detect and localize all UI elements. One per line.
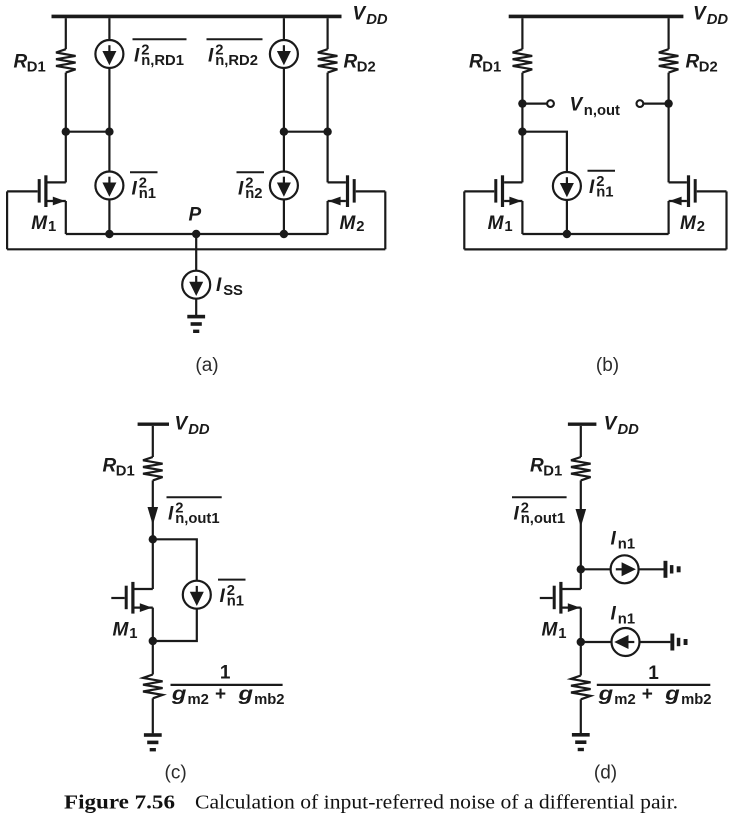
current arrow In,out1 (c) (148, 507, 159, 525)
wire VDD to RD1 (d) (580, 426, 582, 457)
wire RD1 to drain node (a) (65, 73, 67, 132)
wire resistor to ground (d) (580, 699, 582, 733)
svg-text:Figure 7.56: Figure 7.56 (64, 792, 175, 814)
wire ISS to ground (a) (195, 299, 197, 315)
ground (d) (572, 733, 590, 737)
svg-text:I: I (132, 179, 138, 200)
svg-text:m2: m2 (188, 692, 209, 708)
wire VDD to RD1 (b) (521, 18, 523, 49)
svg-text:g: g (237, 684, 253, 705)
svg-text:(c): (c) (165, 762, 187, 783)
svg-text:1: 1 (558, 626, 566, 642)
wire gate feedback rail (b) (464, 248, 726, 250)
label In,out1 squared (c) (167, 496, 222, 498)
wire M1 source down (d) (580, 608, 582, 642)
svg-text:DD: DD (707, 12, 729, 28)
svg-text:(a): (a) (195, 355, 218, 376)
transistor M2 (a) (328, 181, 346, 183)
wire In1 to tail rail (b) (566, 200, 568, 234)
wire RD1 to drain node (c) (152, 480, 154, 539)
current arrow In,out1 (d) (576, 509, 587, 527)
wire In1 bottom to ac ground (d) (640, 641, 671, 643)
svg-text:I: I (134, 46, 140, 67)
node dot In1 tap (b) (518, 128, 526, 136)
svg-text:n,out: n,out (584, 103, 620, 119)
wire source to resistor (c) (152, 641, 154, 675)
wire VDD to In,RD1 source (a) (108, 18, 110, 40)
svg-text:I: I (514, 504, 520, 525)
svg-text:Calculation of input-referred: Calculation of input-referred noise of a… (195, 792, 678, 814)
svg-text:P: P (189, 205, 202, 226)
svg-text:D2: D2 (699, 60, 718, 76)
svg-text:DD: DD (618, 422, 640, 438)
svg-text:n,out1: n,out1 (175, 511, 219, 527)
VDD rail (a) (52, 15, 342, 19)
current source ISS (a) (182, 271, 210, 299)
fraction bar (d) (597, 684, 711, 686)
svg-text:(d): (d) (594, 762, 617, 783)
node dot output left (b) (518, 99, 526, 107)
resistor RD1 (c) (143, 457, 163, 480)
wire gate feedback rail (a) (7, 248, 385, 250)
transistor M1 (a) (48, 181, 66, 183)
svg-text:M: M (340, 213, 357, 234)
wire In1 bottom to source node (c) (153, 609, 197, 641)
svg-text:I: I (208, 46, 214, 67)
wire RD1 to M1 drain (b) (521, 73, 523, 183)
wire In1 to tail rail (a) (108, 200, 110, 235)
svg-text:D1: D1 (543, 463, 562, 479)
current source In1 (c) (183, 581, 211, 609)
svg-text:M: M (31, 213, 48, 234)
svg-text:I: I (220, 586, 226, 607)
resistor 1/(gm2+gmb2) (c) (143, 675, 163, 699)
label In,RD1 squared (a) (133, 38, 187, 40)
svg-text:DD: DD (188, 422, 210, 438)
wire node to M1 drain (a) (65, 132, 67, 183)
ground (c) (144, 733, 162, 737)
svg-text:DD: DD (366, 12, 388, 28)
wire RD1 to drain node (d) (580, 480, 582, 569)
svg-text:M: M (488, 213, 505, 234)
node dot In1 bottom (b) (563, 230, 571, 238)
wire resistor to ground (c) (152, 698, 154, 733)
svg-text:g: g (664, 684, 680, 705)
wire drain junction left (a) (66, 131, 110, 133)
wire VDD to RD2 (b) (667, 18, 669, 49)
wire M1 source down (c) (152, 608, 154, 641)
wire M2 source down (b) (667, 201, 669, 234)
svg-text:1: 1 (220, 662, 231, 683)
resistor RD2 (a) (318, 49, 338, 72)
svg-text:I: I (611, 528, 617, 549)
terminal output left (b) (547, 100, 554, 107)
wire node to In2 source (a) (283, 132, 285, 172)
wire tail rail (b) (522, 233, 668, 235)
resistor RD1 (b) (513, 49, 533, 72)
current source In,RD2 (a) (270, 40, 298, 68)
svg-text:R: R (344, 52, 358, 73)
svg-text:n1: n1 (618, 536, 635, 552)
svg-text:1: 1 (648, 663, 659, 684)
svg-text:I: I (168, 504, 174, 525)
wire drain to In1 top (c) (153, 539, 197, 580)
transistor M1 (d) (563, 588, 581, 590)
svg-text:g: g (597, 684, 613, 705)
current source In2 (a) (270, 172, 298, 200)
label In1 squared (b) (588, 170, 616, 172)
svg-text:g: g (171, 684, 187, 705)
svg-text:n1: n1 (596, 185, 613, 201)
wire P to ISS (a) (195, 234, 197, 271)
wire source to In1 bottom (d) (581, 641, 612, 643)
transistor M2 (b) (669, 181, 687, 183)
svg-text:n2: n2 (245, 186, 262, 202)
wire from right output terminal (b) (643, 102, 668, 104)
wire M1 gate feedback down (a) (6, 191, 8, 249)
svg-text:+: + (642, 684, 653, 705)
svg-text:R: R (14, 52, 28, 73)
node dot In2 top (a) (280, 128, 288, 136)
node dot In1 bottom (a) (105, 230, 113, 238)
node dot drain M2 (a) (323, 128, 331, 136)
wire source to resistor (d) (580, 642, 582, 676)
wire VDD to RD2 (a) (327, 18, 329, 49)
node dot In2 bottom (a) (280, 230, 288, 238)
wire to left output terminal (b) (522, 102, 547, 104)
node dot drain M1 (a) (62, 128, 70, 136)
svg-text:I: I (238, 179, 244, 200)
wire M2 gate feedback down (a) (384, 191, 386, 249)
wire node to In1 source (a) (108, 132, 110, 172)
node dot source (c) (149, 637, 157, 645)
ground (a) (187, 315, 205, 319)
wire In,RD1 to node (a) (108, 68, 110, 132)
label In,RD2 squared (a) (207, 38, 263, 40)
current source In,RD1 (a) (95, 40, 123, 68)
svg-text:V: V (353, 3, 367, 24)
node dot output right (b) (664, 99, 672, 107)
svg-text:V: V (570, 94, 584, 115)
wire RD2 to M2 drain (b) (667, 73, 669, 183)
resistor RD1 (a) (56, 49, 76, 72)
wire In1 top to ac ground (d) (639, 568, 664, 570)
wire RD2 to drain node (a) (327, 73, 329, 132)
node P dot (a) (192, 230, 200, 238)
svg-text:R: R (469, 52, 483, 73)
svg-text:1: 1 (504, 219, 512, 235)
wire M1 source down (a) (65, 201, 67, 234)
wire node to M2 drain (a) (327, 132, 329, 183)
wire M2 gate feedback (b) (725, 191, 727, 249)
ac ground right top (d) (664, 561, 668, 578)
svg-text:2: 2 (697, 219, 705, 235)
wire node to In1 (b) (522, 132, 567, 172)
svg-text:1: 1 (48, 219, 56, 235)
svg-text:I: I (589, 177, 595, 198)
svg-text:n1: n1 (227, 594, 244, 610)
svg-text:n,out1: n,out1 (521, 511, 565, 527)
label In2 squared (a) (237, 171, 265, 173)
wire M1 source down (b) (521, 201, 523, 234)
svg-text:1: 1 (129, 626, 137, 642)
VDD bar (c) (138, 423, 169, 426)
wire VDD to RD1 (c) (152, 426, 154, 457)
resistor RD2 (b) (659, 49, 679, 72)
svg-text:D2: D2 (357, 60, 376, 76)
wire drain vertical (d) (580, 569, 582, 589)
label In1 squared (a) (130, 171, 158, 173)
node dot drain (d) (577, 565, 585, 573)
svg-text:2: 2 (356, 219, 364, 235)
wire In,RD2 to node (a) (283, 68, 285, 132)
wire VDD to In,RD2 (a) (283, 18, 285, 40)
svg-text:D1: D1 (116, 463, 135, 479)
svg-text:SS: SS (223, 283, 243, 299)
transistor M1 (c) (135, 588, 153, 590)
current source In1 (b) (553, 172, 581, 200)
svg-text:I: I (216, 275, 222, 296)
terminal output right (b) (637, 100, 644, 107)
svg-text:n1: n1 (618, 612, 635, 628)
resistor 1/(gm2+gmb2) (d) (571, 676, 591, 700)
svg-text:I: I (611, 604, 617, 625)
wire drain to In1 top source (d) (581, 568, 611, 570)
label In,out1 squared (d) (512, 496, 567, 498)
current source In1 top (d) (611, 555, 639, 583)
node dot drain (c) (149, 535, 157, 543)
resistor RD1 (d) (571, 457, 591, 480)
wire tail rail (a) (66, 233, 328, 235)
wire drain vertical (c) (152, 539, 154, 589)
svg-text:R: R (686, 52, 700, 73)
svg-text:+: + (215, 684, 226, 705)
svg-text:V: V (604, 414, 618, 435)
svg-text:n1: n1 (139, 186, 156, 202)
VDD rail (b) (509, 15, 684, 19)
wire M1 gate feedback (b) (463, 191, 465, 249)
svg-text:D1: D1 (27, 60, 46, 76)
wire VDD to RD1 (a) (65, 18, 67, 49)
node dot source (d) (577, 638, 585, 646)
svg-text:m2: m2 (614, 692, 635, 708)
svg-text:V: V (693, 3, 707, 24)
svg-text:R: R (103, 456, 117, 477)
wire drain junction right (a) (284, 131, 328, 133)
VDD bar (d) (568, 423, 597, 426)
svg-text:M: M (680, 213, 697, 234)
svg-text:R: R (530, 456, 544, 477)
svg-text:mb2: mb2 (254, 692, 284, 708)
wire M2 source down (a) (327, 201, 329, 234)
node dot In1 top (a) (105, 128, 113, 136)
wire In2 to tail rail (a) (283, 200, 285, 235)
current source In1 bottom (d) (612, 628, 640, 656)
svg-text:M: M (542, 620, 559, 641)
svg-text:mb2: mb2 (681, 692, 711, 708)
svg-text:n,RD1: n,RD1 (141, 53, 184, 69)
current source In1 (a) (95, 172, 123, 200)
ac ground right bottom (d) (670, 634, 674, 651)
label In1 squared (c) (218, 579, 246, 581)
svg-text:(b): (b) (596, 355, 619, 376)
svg-text:D1: D1 (482, 60, 501, 76)
transistor M1 (b) (504, 181, 522, 183)
svg-text:n,RD2: n,RD2 (215, 53, 258, 69)
svg-text:M: M (113, 620, 130, 641)
svg-text:V: V (175, 414, 189, 435)
fraction bar (c) (171, 684, 283, 686)
